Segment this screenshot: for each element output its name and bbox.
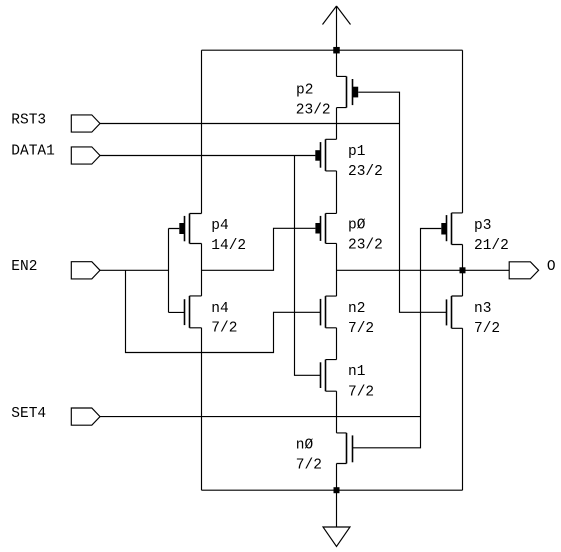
svg-text:EN2: EN2 [11,259,37,275]
transistor n3 (NMOS) [447,296,463,328]
wire left column VDD to p4 source [201,50,203,213]
transistor p1 (PMOS) [315,139,336,171]
wire right column p3 to n3 (output node) [462,245,464,297]
transistor n1 (NMOS) [321,360,337,392]
wire mid column p2 to p1 [336,108,338,140]
wire p2 gate to RST3 net and down to n3 gate [358,92,446,312]
transistor p3 (PMOS) [441,213,462,245]
wire mid column p0 to n2 (output node) [336,243,338,296]
svg-text:7/2: 7/2 [348,385,374,401]
svg-text:23/2: 23/2 [348,238,383,254]
svg-text:DATA1: DATA1 [11,144,55,160]
junction dot top rail (VDD node) [333,47,340,54]
svg-text:n3: n3 [474,301,491,317]
transistor n2 (NMOS) [321,296,337,328]
svg-text:7/2: 7/2 [474,321,500,337]
input port RST3 [71,115,100,132]
wire mid column VDD to p2 [336,50,338,76]
svg-text:p1: p1 [348,144,365,160]
transistor p0 (PMOS) [315,213,336,243]
wire mid column n2 to n1 [336,328,338,360]
svg-text:14/2: 14/2 [211,238,246,254]
output port O [509,262,538,279]
wire right column VDD to p3 [462,50,464,213]
svg-text:RST3: RST3 [11,112,46,128]
svg-text:n1: n1 [348,364,365,380]
junction dot bottom rail (GND node) [334,487,340,493]
junction dot output node [460,267,466,273]
wire p0 gate to p4/n4 drain node [202,228,316,270]
wire bottom ground rail [202,489,463,491]
svg-text:SET4: SET4 [11,406,46,422]
svg-text:7/2: 7/2 [211,320,237,336]
wire left column n4 source to ground rail [201,328,203,490]
svg-text:n4: n4 [211,301,228,317]
svg-text:nØ: nØ [296,437,314,453]
wire EN2 branch to n2 gate [126,270,321,352]
wire DATA1 vertical to n1 gate [295,156,321,376]
wire p3 gate to n0 gate vertical [353,229,442,448]
ground symbol [323,490,350,546]
transistor p2 (PMOS) [337,76,359,107]
svg-text:21/2: 21/2 [474,238,509,254]
wire output node to port O [337,269,510,271]
wire left column p4 drain to n4 drain [201,244,203,296]
wire mid column p1 to p0 [336,171,338,214]
svg-text:n2: n2 [348,301,365,317]
svg-text:23/2: 23/2 [296,103,331,119]
wire right column n3 to ground rail [462,328,464,490]
transistor n0 (NMOS) [337,433,353,464]
transistor n4 (NMOS) [185,296,202,328]
svg-text:O: O [547,259,556,275]
svg-text:7/2: 7/2 [348,321,374,337]
svg-text:p4: p4 [211,218,228,234]
svg-text:pØ: pØ [348,218,366,234]
input port SET4 [71,408,100,425]
transistor p4 (PMOS) [179,214,201,244]
wire SET4 to p3/n0 gate column [100,416,421,418]
svg-text:p3: p3 [474,218,491,234]
wire RST3 to p2/n3 gate column [100,123,400,125]
wire p4/n4 gate column [169,229,185,313]
wire DATA1 to p1 gate [100,155,315,157]
wire EN2 to p4/n4 gate column [100,269,169,271]
svg-text:7/2: 7/2 [296,457,322,473]
input port EN2 [71,262,100,279]
wire mid column n0 to ground rail [336,464,338,491]
input port DATA1 [71,147,100,164]
wire mid column n1 to n0 [336,391,338,433]
wire top VDD rail [202,49,463,51]
power VDD symbol (arrow) [323,6,351,50]
svg-text:p2: p2 [296,83,313,99]
svg-text:23/2: 23/2 [348,164,383,180]
